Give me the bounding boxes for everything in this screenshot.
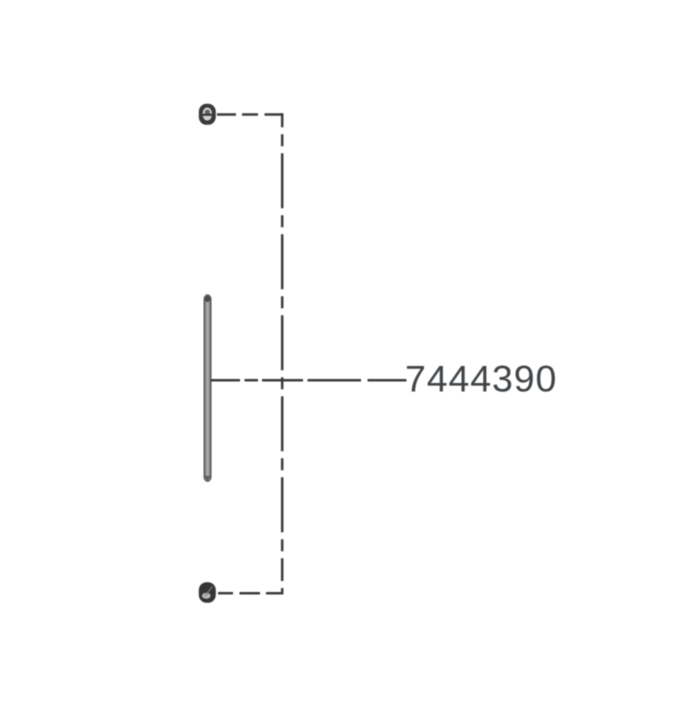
wire: dashed reference line, bottom horizontal (218, 592, 283, 595)
screw/rivet (bottom mounting point) (199, 582, 216, 603)
part number label 7444390 (405, 357, 557, 399)
wire: dashed reference line, vertical (281, 113, 284, 594)
wire: leader line from rod to part number (211, 379, 407, 382)
wire: dashed reference line, top horizontal (217, 113, 283, 116)
screw/rivet (top mounting point) (199, 104, 216, 125)
svg-text:7444390: 7444390 (405, 357, 557, 399)
pin/rod part 7444390 (204, 295, 211, 482)
